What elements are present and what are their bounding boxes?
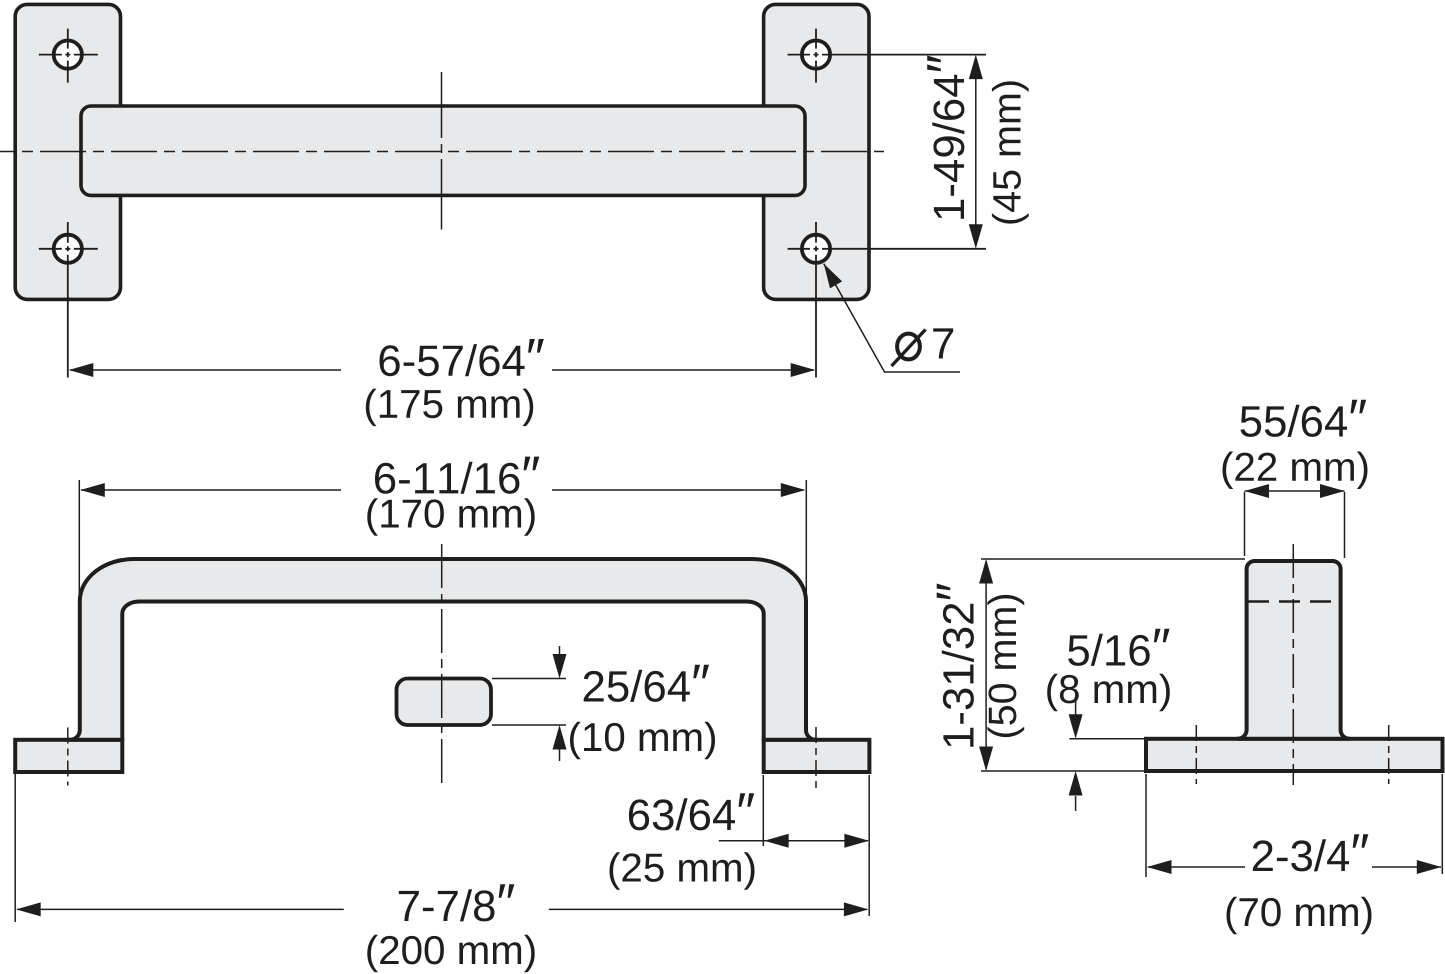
leader line for hole diameter: [824, 264, 960, 372]
text (22 mm): [1223, 452, 1368, 490]
vertical centerline (side view): [1292, 544, 1294, 785]
dimension 2-3/4" (70 mm) foot width: [1146, 774, 1442, 877]
handle bent bar (front view outline): [70, 559, 816, 740]
text (200 mm): [367, 935, 534, 973]
arrowhead pointing down to foot top: [1069, 714, 1083, 739]
screw centerline right (side view): [1388, 725, 1390, 784]
screw centerline right foot: [815, 727, 817, 792]
rotated text (45 mm): [992, 81, 1029, 223]
dimension 7-7/8" (200 mm) overall width: [15, 774, 867, 922]
arrowhead below slot pointing up: [553, 725, 567, 750]
vertical centerline middle of bar (top view): [441, 72, 443, 230]
dimension 55/64" (22 mm) post width: [1245, 491, 1345, 558]
screw centerline left foot: [67, 728, 69, 786]
left mounting plate (top view): [15, 4, 120, 299]
slot in grip (front view): [397, 679, 492, 726]
text (70 mm): [1227, 897, 1372, 935]
text 55/64": [1241, 400, 1367, 437]
arrowhead right of 55/64 dimension: [1320, 484, 1345, 498]
rotated text 1-49/64": [927, 56, 964, 219]
dimension 63/64" (25 mm) foot width: [719, 775, 869, 916]
post (side view outline): [1238, 561, 1350, 739]
arrowhead bottom of 1-31/32 dimension: [979, 747, 993, 772]
arrowhead right of 6-11/16 dimension: [781, 483, 806, 497]
arrowhead left of 6-11/16 dimension: [80, 483, 105, 497]
right foot plate (front view): [764, 740, 870, 772]
arrowhead right of 63/64 dimension: [844, 834, 869, 848]
center mark of hole top-left: [39, 29, 98, 83]
text (175 mm): [366, 389, 533, 427]
arrowhead right of 7-7/8 dimension: [844, 902, 869, 916]
text 5/16": [1068, 629, 1169, 666]
hole bottom-left: [54, 235, 82, 263]
dimension 5/16" (8 mm) foot thickness: [1069, 697, 1146, 811]
dimension 1-49/64" (45 mm) vertical line: [975, 57, 977, 247]
hidden line (bar underside) in side view: [1248, 600, 1338, 602]
arrowhead above slot pointing down: [553, 654, 567, 679]
text 2-3/4": [1253, 834, 1369, 871]
text (170 mm): [367, 498, 534, 536]
arrowhead left of 6-57/64 dimension: [69, 363, 94, 377]
dimension 1-31/32" (50 mm) height: [981, 559, 1245, 771]
arrowhead left of 63/64 dimension: [764, 834, 789, 848]
dimension 6-57/64" (175 mm) line: [70, 369, 814, 371]
arrowhead bottom of 1-49/64 dimension: [969, 224, 983, 249]
foot plate (side view): [1146, 739, 1443, 771]
vertical centerline (front view): [441, 544, 443, 787]
hole top-left: [54, 41, 82, 69]
text (8 mm): [1047, 674, 1170, 712]
diameter symbol: [892, 330, 926, 367]
arrowhead top of 1-31/32 dimension: [979, 559, 993, 584]
text 7-7/8": [399, 884, 515, 921]
arrowhead left of 55/64 dimension: [1245, 484, 1270, 498]
center mark of hole bottom-right + extensions: [788, 222, 986, 378]
dimension 6-11/16" (170 mm): [79, 480, 806, 597]
text (25 mm): [610, 852, 755, 890]
arrowhead right of 2-3/4 dimension: [1417, 860, 1442, 874]
rotated text (50 mm): [987, 595, 1024, 737]
arrowhead right of 6-57/64 dimension: [791, 363, 816, 377]
text (10 mm): [570, 722, 715, 760]
text 6-11/16": [375, 457, 539, 494]
center mark of hole top-right + extension to vertical dimension: [788, 29, 986, 83]
arrowhead top of 1-49/64 dimension: [969, 55, 983, 80]
horizontal centerline of bar (top view): [0, 151, 884, 153]
text 25/64": [584, 665, 709, 702]
text 7 of diameter callout: [933, 328, 953, 358]
dimension 25/64" (10 mm) slot thickness: [492, 646, 566, 761]
center mark of hole bottom-left + extension line down to dimension: [39, 222, 98, 378]
rotated text 1-31/32": [937, 584, 974, 747]
arrowhead of leader pointing at hole: [818, 260, 842, 288]
arrowhead pointing up to foot bottom: [1069, 771, 1083, 796]
handle bar (top view): [81, 106, 805, 195]
hole bottom-right: [802, 235, 830, 263]
screw centerline left (side view): [1195, 725, 1197, 784]
arrowhead left of 7-7/8 dimension: [16, 902, 41, 916]
arrowhead left of 2-3/4 dimension: [1147, 860, 1172, 874]
right mounting plate (top view): [764, 4, 869, 299]
text 63/64": [629, 793, 754, 830]
text 6-57/64": [380, 339, 544, 376]
hole top-right: [802, 41, 830, 69]
left foot plate (front view): [15, 740, 122, 772]
